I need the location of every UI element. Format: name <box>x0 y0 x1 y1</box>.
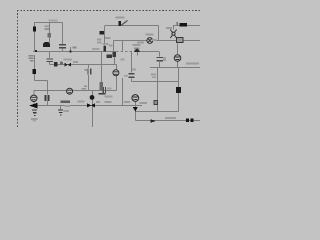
wire horizontal y80 <box>35 80 48 82</box>
wire vertical x101 <box>101 52 103 82</box>
component bead on x114 <box>113 52 116 57</box>
transistor Q5 circle <box>132 95 139 102</box>
text DS2 label <box>166 27 172 29</box>
wire top-left horizontal <box>34 22 63 24</box>
text mid y105 labels <box>78 101 148 105</box>
switch S1 bar <box>119 21 122 26</box>
capacitor C6 bars x103 <box>102 87 103 93</box>
wire Q5 lead <box>135 102 137 108</box>
resistor R10 small box <box>154 101 157 105</box>
text above rail x92 <box>92 48 100 50</box>
ground G2 label <box>64 110 70 112</box>
resistor R6 squiggle x101 <box>100 82 103 90</box>
arrow on W8 <box>151 119 157 123</box>
diode D1 pair on rail <box>134 48 140 52</box>
wire vertical x158 <box>158 26 160 41</box>
wire vertical x92 bottom <box>92 91 94 128</box>
transistor Q6 blob <box>43 42 50 47</box>
wire ground stub G2 <box>60 106 62 110</box>
wire vertical R1 branch <box>49 23 51 48</box>
diode pair D6 bottom right <box>186 118 189 122</box>
text below W5 <box>137 42 144 44</box>
plus sign C3 <box>84 70 87 71</box>
text above R7 <box>102 43 108 45</box>
wire vertical C1 branch <box>62 23 64 45</box>
wire vertical left chain <box>34 23 36 52</box>
text right of D2 <box>73 61 78 63</box>
wire vertical x116 <box>116 65 118 91</box>
transistor Q2 circle <box>113 70 119 76</box>
wire vertical x47 <box>47 81 49 95</box>
wire top horizontal y25 <box>105 25 159 27</box>
tick on y64 <box>60 62 62 65</box>
text above y64 wire <box>64 59 73 61</box>
text Cap Sm <box>49 20 58 22</box>
junction diamond on y64 <box>54 62 57 66</box>
wire D5 lead <box>135 110 137 113</box>
wire DS2 top lead <box>173 26 175 30</box>
diode D4 black on x178 <box>176 87 181 93</box>
text above D1 <box>133 44 141 46</box>
net arrow left on y105 <box>29 103 38 109</box>
diode D3 on top right wire <box>180 23 188 27</box>
lamp DS1 <box>147 38 153 44</box>
wire main rail y51 <box>33 51 116 53</box>
text 1.5M ohm <box>186 63 199 65</box>
capacitor C4 plates <box>157 57 164 62</box>
wire horizontal y67 right <box>150 67 200 69</box>
capacitor C3 electrolytic <box>87 69 91 75</box>
resistor R2 body <box>48 33 51 37</box>
wire vertical x114 link <box>114 57 116 65</box>
text above C6 <box>107 88 112 90</box>
text left of x113 <box>105 37 113 47</box>
wire horizontal y64 middle <box>50 64 117 66</box>
diode pair D2 on y64 <box>65 63 72 67</box>
text C5 label <box>132 68 136 70</box>
wire vertical x104 top <box>104 26 106 46</box>
polarized cap B2 body <box>33 69 36 74</box>
text R left rail <box>29 55 34 61</box>
wire vertical C3 x88 <box>88 65 90 69</box>
sheet dashed border <box>17 11 200 128</box>
connector arrow P1 <box>100 31 105 35</box>
resistor R5 box x47 <box>45 95 47 101</box>
ground bar under R6 <box>98 93 105 95</box>
text above y120 wire <box>165 117 176 119</box>
wire dashed rail segment <box>116 51 134 53</box>
wire horizontal y81 <box>132 81 179 83</box>
text x82 marks <box>82 86 88 90</box>
wire vertical x157 <box>157 68 159 112</box>
text node A label <box>72 46 76 48</box>
junction dot node B <box>35 50 37 52</box>
polarized cap B1 body <box>33 27 36 32</box>
text left of W5 end <box>152 39 157 41</box>
wire lower rail y105 <box>37 105 142 107</box>
ground G2 <box>58 110 63 116</box>
wire horizontal y40 <box>114 40 201 42</box>
wire horizontal y90 <box>34 90 117 92</box>
text 3 on y64 <box>60 62 63 65</box>
wire vertical Q3 x177 <box>177 44 179 55</box>
text R6 bottom <box>105 96 113 98</box>
text switch S1 <box>116 17 125 19</box>
text right of C4 <box>163 57 166 61</box>
ground G1 <box>32 109 37 116</box>
ground G1 label <box>31 118 38 120</box>
wire vertical x122 <box>122 41 124 52</box>
transistor Q4 circle <box>67 88 73 94</box>
text above DS1 <box>146 34 154 36</box>
label blob MIC <box>107 55 113 59</box>
wire top right y25 <box>173 25 200 27</box>
resistor R8 box on y40 <box>177 38 183 43</box>
capacitor C5 plates <box>129 73 135 78</box>
wire vertical x34 lower <box>34 55 36 81</box>
wire horizontal y120 bottom right <box>136 120 201 122</box>
tick above y25 wire <box>177 22 178 25</box>
dark node blob x92 <box>90 95 95 100</box>
text left x157 chain <box>151 74 156 79</box>
wire vertical C5 x131 <box>131 52 133 73</box>
transistor Q3 circle <box>174 55 181 62</box>
wire stub node A <box>70 47 72 52</box>
wire vertical x178 <box>178 68 180 112</box>
transistor Q1 circle <box>31 95 37 101</box>
switch S1 lever <box>121 21 128 26</box>
resistor R7 tick x103 <box>103 46 106 52</box>
text SCR1P dark <box>61 101 71 103</box>
capacitor C2 plates <box>47 58 54 62</box>
text right of wire A end <box>65 105 71 107</box>
wire Q1 bottom lead <box>33 102 35 104</box>
diode pair D7 on y105 <box>87 103 95 107</box>
wire Q1 top lead <box>33 91 35 96</box>
wire vertical x113 <box>113 41 115 52</box>
text near x122 mid <box>121 59 125 61</box>
junction dot node A <box>69 50 71 52</box>
text R1 value <box>44 25 49 30</box>
wire vertical C4 x159 <box>159 52 161 57</box>
wire stub D2 <box>137 52 139 56</box>
capacitor C1 plates <box>59 44 66 48</box>
diode D5 down triangle <box>133 107 138 111</box>
wire horizontal y112 <box>136 111 179 113</box>
lamp DS2 X shape <box>170 30 176 39</box>
text x97 two lines <box>97 39 102 44</box>
wire vertical C2 x49 low <box>49 52 51 58</box>
text near x122 <box>124 75 128 77</box>
